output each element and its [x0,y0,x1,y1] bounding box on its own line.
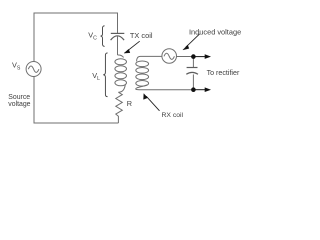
svg-text:To rectifier: To rectifier [207,69,240,77]
svg-text:R: R [127,99,132,108]
svg-text:VL: VL [92,71,100,82]
svg-text:VC: VC [88,31,97,42]
svg-text:RX coil: RX coil [162,112,184,119]
svg-text:TX coil: TX coil [130,31,153,40]
svg-text:Induced voltage: Induced voltage [189,27,241,36]
svg-text:Source: Source [8,94,30,101]
svg-text:VS: VS [12,61,21,72]
svg-text:voltage: voltage [8,101,30,108]
